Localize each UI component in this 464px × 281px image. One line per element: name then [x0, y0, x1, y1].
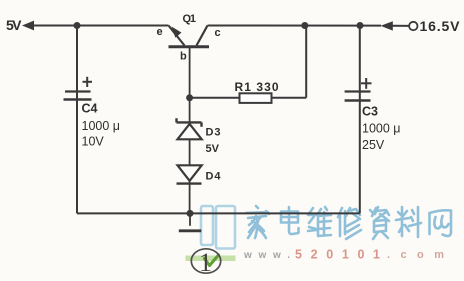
svg-text:C3: C3 — [362, 105, 378, 119]
svg-text:R1 330: R1 330 — [235, 80, 279, 94]
watermark char 修 — [338, 208, 361, 239]
transistor Q1 — [169, 26, 210, 47]
watermark char 网 — [430, 210, 452, 236]
wire bottom horizontal — [77, 212, 360, 214]
wire top-left from 5V arrow to emitter — [33, 25, 169, 27]
wire right arrow to terminal — [393, 25, 410, 27]
node junction base/R1 — [186, 94, 193, 101]
svg-text:D3: D3 — [206, 127, 221, 139]
wire right vertical — [359, 26, 361, 214]
circled figure number 1 — [191, 249, 220, 273]
watermark group start — [201, 206, 451, 249]
diode D4 — [177, 165, 202, 183]
terminal circle 16.5V — [409, 22, 417, 30]
watermark char 资 — [370, 207, 389, 239]
svg-text:C4: C4 — [82, 102, 98, 116]
node junction bottom — [187, 210, 194, 217]
svg-text:1: 1 — [199, 248, 212, 277]
watermark char 电 — [281, 207, 299, 234]
svg-text:1000 μ: 1000 μ — [362, 122, 400, 136]
arrow to 5V output — [22, 21, 34, 31]
watermark green bar — [186, 256, 236, 262]
svg-text:16.5V: 16.5V — [420, 18, 461, 34]
transistor Q1 emitter arrow — [172, 27, 182, 38]
svg-text:1000 μ: 1000 μ — [82, 119, 120, 133]
watermark char 家 — [246, 206, 269, 238]
svg-text:5V: 5V — [6, 17, 22, 33]
capacitor C4 — [64, 77, 93, 100]
svg-text:5V: 5V — [206, 143, 220, 155]
wire R1 branch horizontal left — [190, 97, 240, 99]
svg-text:b: b — [180, 51, 187, 63]
ground bar — [179, 229, 202, 232]
zener diode D3 — [177, 118, 202, 139]
svg-text:10V: 10V — [82, 135, 105, 149]
svg-text:e: e — [157, 26, 163, 38]
svg-text:25V: 25V — [362, 138, 385, 152]
node junction R1 top — [301, 22, 308, 29]
wire top-right from collector to input arrow — [208, 25, 382, 27]
watermark green check — [205, 255, 219, 266]
svg-text:Q1: Q1 — [183, 13, 197, 25]
wire R1 branch vertical — [305, 26, 307, 98]
watermark char 维 — [308, 207, 331, 236]
wire R1 branch horizontal right — [272, 97, 307, 99]
svg-text:D4: D4 — [206, 171, 222, 183]
watermark char 料 — [396, 207, 421, 237]
node junction top-left — [74, 22, 81, 29]
circuit ink — [33, 26, 409, 226]
wire middle vertical (base to bottom) — [189, 47, 191, 213]
wire left vertical — [76, 26, 78, 214]
node junction C3 top — [357, 22, 364, 29]
resistor R1 — [240, 93, 272, 103]
watermark book icon — [201, 206, 235, 249]
svg-text:c: c — [215, 27, 221, 39]
capacitor C3 — [345, 78, 372, 101]
ground stub — [189, 213, 191, 225]
arrow from 16.5V input — [381, 21, 393, 30]
